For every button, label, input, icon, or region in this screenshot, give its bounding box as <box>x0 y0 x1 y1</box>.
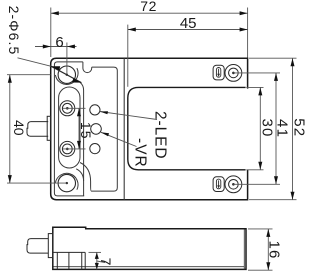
svg-text:15: 15 <box>78 122 94 140</box>
head pocket outline <box>80 67 117 191</box>
dim 15 <box>63 108 86 149</box>
head plate outline <box>54 62 84 196</box>
dim 72 <box>51 8 248 58</box>
dim 41 <box>234 73 281 184</box>
dim 40 <box>7 75 67 183</box>
svg-text:30: 30 <box>259 118 276 137</box>
svg-text:7: 7 <box>98 258 114 266</box>
pocket inner vertical <box>77 81 84 196</box>
screw slot bottom <box>213 177 224 192</box>
dim 30 <box>246 87 263 169</box>
dim 45 <box>128 25 248 87</box>
mounting hole top-left <box>58 66 75 83</box>
dim 16 <box>248 229 273 270</box>
mounting hole bottom-left <box>58 174 75 191</box>
connector plug top view <box>27 122 48 137</box>
body outline side view <box>53 227 246 269</box>
svg-text:6: 6 <box>55 34 63 51</box>
LED hole upper <box>90 105 100 115</box>
screw circle bottom <box>225 176 242 193</box>
leader 2-LED <box>100 112 157 120</box>
leader 2-phi6.5 <box>18 58 52 67</box>
boss frame bottom branch <box>76 169 83 181</box>
connector plug side view <box>27 239 48 254</box>
leader -VR <box>101 132 137 146</box>
dim 7 <box>89 252 106 269</box>
bracket side view <box>53 252 85 269</box>
svg-text:2-LED: 2-LED <box>152 111 169 159</box>
side view inner bottom line <box>54 266 245 268</box>
svg-text:2-Φ6.5: 2-Φ6.5 <box>6 6 22 56</box>
dim 52 <box>249 58 297 200</box>
head body parting line <box>123 58 125 200</box>
VR hole <box>91 124 102 135</box>
svg-text:16: 16 <box>265 240 282 259</box>
counterbored hole upper <box>60 101 75 116</box>
counterbored hole lower <box>60 141 75 156</box>
svg-text:40: 40 <box>11 120 27 136</box>
screw slot top <box>213 65 224 80</box>
mounting boss bottom-left <box>55 173 78 189</box>
connector flange side view <box>48 234 53 258</box>
side view inner right line <box>243 229 245 269</box>
mounting boss top-left <box>55 68 78 84</box>
boss frame top u-turn <box>83 62 92 73</box>
LED hole lower <box>90 144 100 154</box>
svg-text:-VR: -VR <box>132 138 149 168</box>
svg-text:52: 52 <box>290 118 305 137</box>
cover window <box>128 87 246 169</box>
plate strip outline <box>59 87 80 168</box>
dim 6 <box>35 43 77 75</box>
body outline top view <box>51 58 248 200</box>
connector flange top view <box>47 116 51 140</box>
screw circle top <box>225 65 242 82</box>
svg-text:72: 72 <box>140 0 157 14</box>
svg-text:45: 45 <box>180 15 197 32</box>
